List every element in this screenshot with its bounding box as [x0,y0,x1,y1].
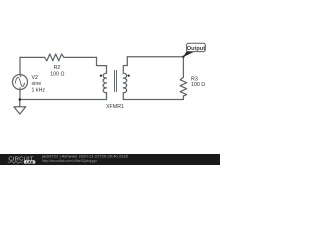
voltage source minus sign [19,87,21,89]
svg-text:1 kHz: 1 kHz [32,87,46,93]
voltage source V2 sine symbol [15,77,24,86]
wire step down to primary top [97,57,107,65]
wire secondary bottom lead [122,93,124,100]
svg-text:http://circuitlab.com/c9be3Qab: http://circuitlab.com/c9be3Qabqqgx [42,159,97,163]
CircuitLab logo waveform [8,161,23,164]
transformer XFMR1 secondary winding [123,73,126,93]
resistor R2 [45,54,64,61]
transformer core line right [116,71,118,92]
phase dot primary [100,75,102,77]
wire bottom-left rail [20,99,107,101]
CircuitLab logo LAB box [24,160,35,164]
svg-text:XFMR1: XFMR1 [106,104,124,110]
svg-text:R2: R2 [54,65,61,71]
wire R3 top lead [182,57,184,78]
wire R3 bottom lead [182,96,184,100]
transformer XFMR1 primary winding [103,73,106,93]
junction dot at ground node [19,98,22,101]
ground symbol [14,107,26,114]
phase dot secondary [128,75,130,77]
voltage source plus sign [19,75,21,88]
wire R2 to step [64,56,97,58]
output flag box [187,43,206,51]
svg-text:jack5722 | Ashware 2020-11-22T: jack5722 | Ashware 2020-11-22T20:39:40.2… [41,154,129,158]
wire top rail left (to R2) [20,56,45,58]
svg-text:sine: sine [32,81,42,87]
wire V2 bottom lead [19,90,21,100]
wire step up to top-right rail [126,57,128,66]
ground stem [19,100,21,107]
wire primary top lead [106,66,108,74]
output flag pointer wedge [183,51,194,57]
svg-text:V2: V2 [32,75,39,81]
wire secondary top lead [123,66,127,74]
svg-text:100 Ω: 100 Ω [191,82,205,88]
junction dot at output node [182,56,184,58]
transformer core line left [114,71,116,92]
wire bottom-right rail [123,99,183,101]
footer black bar [0,154,220,165]
wire top-right rail to R3 [127,56,183,58]
wire top-left vertical from V2 to top rail [19,57,21,74]
resistor R3 [180,77,187,96]
svg-text:LAB: LAB [26,160,34,164]
wire primary bottom lead [106,93,108,100]
voltage source V2 circle [13,75,28,90]
svg-text:Output: Output [187,46,205,52]
svg-text:100 Ω: 100 Ω [50,72,64,78]
